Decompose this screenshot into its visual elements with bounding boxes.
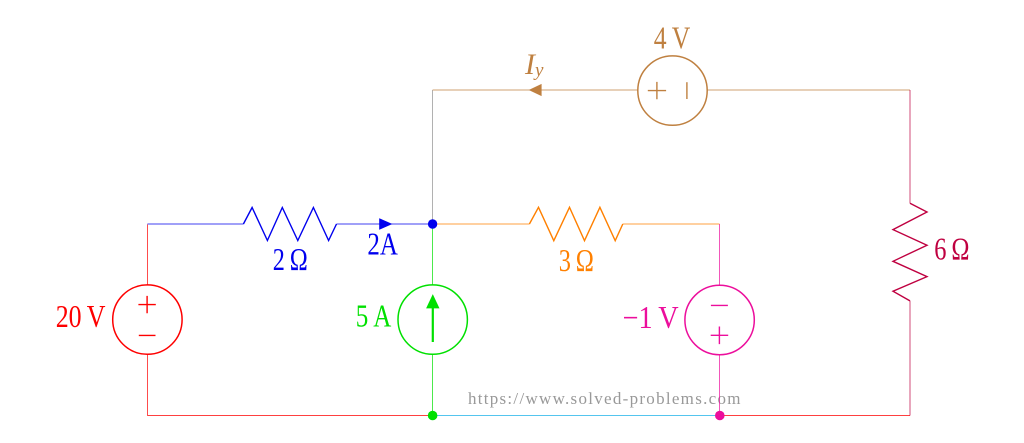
svg-text:6 Ω: 6 Ω [934, 232, 969, 267]
wire red left branch upper [146, 225, 148, 285]
svg-text:5 A: 5 A [356, 299, 392, 334]
wire orange right segment [623, 223, 720, 225]
wire green vertical lower [432, 354, 434, 415]
wire green vertical upper [432, 224, 434, 285]
svg-text:−1 V: −1 V [623, 300, 679, 335]
svg-text:https://www.solved-problems.co: https://www.solved-problems.com [468, 389, 741, 408]
wire gray vertical (node to top rail) [432, 90, 434, 224]
current source 5A circle [398, 285, 467, 354]
voltage source 20V circle [113, 285, 182, 354]
arrow of 5A source [432, 307, 434, 342]
wire brown top-left segment [433, 89, 638, 91]
plus mark of 20V source [138, 296, 155, 313]
wire purple right branch upper [909, 90, 911, 203]
wire red bottom-right segment [720, 415, 910, 417]
voltage source -1V circle [685, 285, 754, 354]
voltage source 4V circle [638, 56, 707, 125]
svg-text:4 V: 4 V [654, 21, 691, 56]
current arrow 2A [379, 218, 392, 230]
wire red left branch lower [146, 354, 148, 415]
node A junction dot (blue) [428, 219, 437, 228]
wire orange left segment (3 Ohm branch) [433, 223, 530, 225]
wire blue left segment (middle rail) [147, 223, 243, 225]
wire cyan bottom-middle segment [433, 415, 720, 417]
wire brown top-right segment [707, 89, 910, 91]
svg-text:2 Ω: 2 Ω [273, 242, 308, 277]
wire purple right branch lower [909, 301, 911, 416]
svg-text:3 Ω: 3 Ω [559, 243, 594, 278]
svg-text:20 V: 20 V [56, 299, 106, 334]
plus mark of -1V source [711, 327, 729, 345]
resistor 3 Ohm [529, 207, 622, 240]
svg-text:2A: 2A [367, 226, 398, 261]
svg-text:Iy: Iy [524, 48, 544, 81]
node ground-left junction dot (green) [428, 411, 438, 421]
wire magenta vertical upper [719, 224, 721, 286]
plus mark of 4V source [648, 82, 666, 99]
minus mark of 4V source (rotated) [686, 82, 688, 99]
node ground-right junction dot (magenta) [715, 411, 725, 421]
minus mark of -1V source [711, 304, 728, 306]
resistor 6 Ohm [893, 203, 927, 301]
wire red bottom-left segment [147, 415, 432, 417]
wire blue right segment with current arrow [337, 223, 433, 225]
wire magenta vertical lower [719, 355, 721, 415]
minus mark of 20V source [139, 334, 156, 336]
resistor 2 Ohm [243, 208, 336, 241]
current arrow Iy (pointing left) [529, 84, 542, 96]
